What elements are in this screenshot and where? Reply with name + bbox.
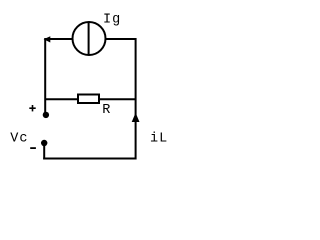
arrow current direction iL (pointing up) bbox=[132, 113, 140, 122]
wire left vertical bbox=[44, 38, 46, 113]
label Vc bbox=[10, 132, 28, 147]
wire top horizontal bbox=[45, 38, 135, 40]
label R bbox=[102, 103, 111, 118]
svg-text:iL: iL bbox=[150, 131, 168, 146]
node terminal bottom (-) bbox=[41, 140, 47, 146]
label minus sign bbox=[30, 147, 36, 149]
svg-text:Vc: Vc bbox=[10, 132, 28, 147]
label plus sign bbox=[29, 105, 35, 111]
node terminal top (+) bbox=[43, 112, 49, 118]
wire bottom horizontal bbox=[43, 158, 135, 160]
resistor R bbox=[78, 95, 99, 104]
label Ig bbox=[103, 13, 121, 28]
label iL bbox=[150, 131, 168, 146]
wire bottom-left vertical bbox=[43, 143, 45, 160]
current source Ig bbox=[73, 22, 106, 55]
svg-text:R: R bbox=[102, 103, 111, 118]
wire right vertical bbox=[135, 38, 137, 160]
wire middle horizontal bbox=[45, 98, 135, 100]
arrow current direction Ig (pointing left) bbox=[44, 36, 51, 42]
svg-text:Ig: Ig bbox=[103, 13, 121, 28]
